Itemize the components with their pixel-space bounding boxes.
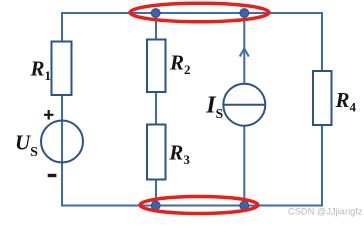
- resistor R3: [147, 125, 166, 180]
- node dot top-left: [151, 9, 160, 18]
- wire current source top segment: [243, 13, 245, 85]
- wire bottom rail: [61, 205, 323, 207]
- wire right branch: [321, 12, 323, 207]
- polarity minus: [48, 174, 57, 177]
- node dot bottom-left: [151, 201, 160, 210]
- node highlight ellipse top: [130, 3, 269, 22]
- resistor R2: [147, 40, 166, 93]
- voltage source US circle: [41, 121, 83, 163]
- wire R2-R3 branch: [155, 13, 157, 206]
- svg-text:CSDN @JJjiangfz: CSDN @JJjiangfz: [288, 207, 363, 217]
- svg-text:IS: IS: [205, 93, 223, 122]
- wire top rail: [61, 12, 323, 14]
- node highlight ellipse bottom: [140, 197, 258, 214]
- svg-text:R4: R4: [335, 88, 357, 115]
- current source IS circle: [223, 84, 265, 126]
- svg-text:R2: R2: [169, 50, 191, 77]
- node dot bottom-right: [240, 201, 249, 210]
- resistor R1: [52, 42, 72, 96]
- wire left branch: [61, 12, 63, 207]
- svg-text:R3: R3: [168, 140, 190, 167]
- current source arrow: [240, 49, 249, 57]
- svg-text:US: US: [15, 131, 38, 161]
- node dot top-right: [240, 9, 249, 18]
- wire current source bottom segment: [243, 125, 245, 207]
- svg-text:R1: R1: [30, 57, 52, 84]
- resistor R4: [313, 71, 332, 125]
- polarity plus: [44, 110, 54, 120]
- current source IS bar: [223, 104, 265, 106]
